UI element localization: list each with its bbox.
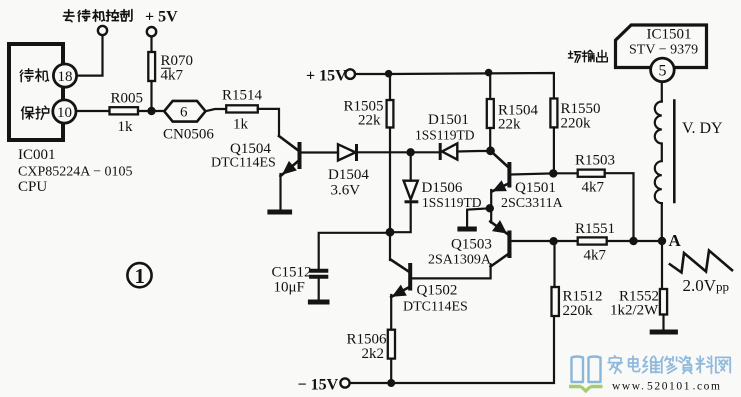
transistor Q1503 — [412, 222, 512, 279]
pin 18 of IC001 — [53, 64, 76, 87]
wire: R1550 to base node — [553, 127, 555, 173]
svg-text:520101: 520101 — [647, 381, 691, 393]
node: junction D1506 top — [406, 148, 414, 156]
wire: R1503 right down to R1551 line — [605, 173, 634, 241]
svg-text:4k7: 4k7 — [161, 68, 184, 84]
svg-text:Q1503: Q1503 — [451, 237, 492, 253]
wire: rail down to R1504 — [489, 73, 491, 99]
wire: node to R1503 — [553, 172, 577, 174]
svg-text:CXP85224A − 0105: CXP85224A − 0105 — [18, 165, 132, 180]
watermark url www.520101.com — [612, 381, 722, 393]
svg-text:D1506: D1506 — [422, 180, 463, 196]
node: junction R1504/D1501/Q1501 — [486, 146, 495, 155]
node: emitter junction Q1501/Q1503 — [486, 204, 494, 212]
wire: -15V rail — [350, 316, 554, 383]
wire: R1552 to ground — [662, 315, 664, 331]
svg-text:− 15V: − 15V — [298, 377, 339, 394]
wire: D1501 to Q1501 collector node — [457, 150, 490, 153]
wire: terminal to pin 18 — [77, 35, 103, 75]
pin 10 of IC001 — [53, 100, 76, 123]
svg-text:2.0Vpp: 2.0Vpp — [683, 276, 730, 295]
svg-text:+ 5V: + 5V — [145, 9, 178, 26]
svg-text:1SS119TD: 1SS119TD — [422, 195, 482, 210]
svg-text:1k2/2W: 1k2/2W — [610, 303, 659, 319]
IC1501 vertical output box — [616, 25, 707, 68]
svg-text:Q1502: Q1502 — [417, 283, 458, 299]
wire: emitter node to ground branch — [467, 208, 490, 227]
svg-text:6: 6 — [180, 105, 188, 121]
svg-text:CN0506: CN0506 — [163, 127, 214, 143]
wire: R070 to junction — [150, 81, 152, 111]
label 场输出 (field output) — [568, 50, 607, 62]
transistor Q1501 — [491, 151, 564, 223]
terminal: to-standby-control (去待机控制) open circle — [98, 26, 107, 35]
svg-text:A: A — [669, 231, 682, 250]
svg-text:DTC114ES: DTC114ES — [403, 300, 468, 315]
node: junction R070/R005/CN0506 — [147, 107, 155, 115]
svg-text:STV − 9379: STV − 9379 — [629, 43, 698, 58]
svg-text:4k7: 4k7 — [582, 180, 605, 196]
svg-text:DTC114ES: DTC114ES — [211, 156, 276, 171]
watermark char 维 with pink radical — [643, 356, 660, 372]
resistor R1505 — [344, 99, 394, 129]
svg-text:1SS119TD: 1SS119TD — [415, 128, 475, 143]
wire: pin 10 to R005 — [76, 110, 110, 112]
svg-text:R1503: R1503 — [575, 153, 615, 169]
resistor R1504 — [487, 99, 539, 133]
svg-text:Q1501: Q1501 — [515, 180, 556, 196]
svg-text:R1551: R1551 — [575, 221, 615, 237]
resistor R1552 — [610, 289, 667, 319]
node: junction R1512 on base line — [549, 237, 557, 245]
node: junction R1505/Q1502/C1512 — [386, 228, 395, 237]
node: junction rail/R1504 — [485, 69, 493, 77]
svg-text:D1501: D1501 — [428, 112, 469, 128]
wire: R1504 to collector node — [489, 128, 491, 151]
label 待机 (standby) — [20, 69, 48, 82]
svg-text:18: 18 — [58, 69, 73, 85]
waveform: sawtooth at node A — [669, 251, 733, 273]
resistor R1512 — [552, 287, 603, 319]
ground: C1512 — [308, 300, 330, 305]
watermark text 家电维修资料网 — [608, 356, 640, 374]
resistor R1551 — [575, 221, 615, 264]
node: junction R1503 branch — [629, 237, 637, 245]
wire: D1504 to D1501 — [358, 151, 439, 153]
wire: +15V supply rail — [355, 73, 554, 99]
label 保护 (protect) — [22, 106, 50, 119]
wire: pin 5 to coil — [661, 82, 663, 102]
wire: R1514 to Q1504 collector — [258, 109, 279, 136]
svg-text:www.: www. — [612, 381, 645, 393]
node: junction R1506/-15V rail — [387, 379, 395, 387]
connector CN0506 pin 6 hexagon — [163, 101, 214, 143]
svg-text:R1514: R1514 — [222, 88, 263, 104]
svg-text:22k: 22k — [358, 113, 381, 129]
svg-text:3.6V: 3.6V — [331, 183, 361, 199]
capacitor C1512 — [272, 265, 329, 301]
wire: +5V to R070 — [150, 37, 152, 52]
svg-text:1k: 1k — [233, 117, 249, 133]
node: junction rail/R1505 — [385, 70, 393, 78]
svg-text:R005: R005 — [111, 91, 144, 107]
wire: CN0506 to R1514 — [206, 109, 227, 111]
svg-text:2SC3311A: 2SC3311A — [501, 196, 564, 211]
resistor R1550 — [550, 99, 600, 132]
svg-text:CPU: CPU — [18, 179, 47, 195]
resistor R070 — [148, 52, 193, 84]
svg-text:IC1501: IC1501 — [647, 27, 692, 43]
svg-text:22k: 22k — [498, 117, 521, 133]
diode D1504 — [328, 144, 369, 199]
svg-text:2k2: 2k2 — [362, 346, 385, 362]
diode D1506 — [390, 152, 482, 232]
inductor V.DY deflection coil — [655, 99, 723, 203]
terminal: +15V open circle — [345, 69, 355, 79]
svg-text:220k: 220k — [561, 116, 592, 132]
transistor Q1504 base wire to D1504 — [302, 151, 339, 153]
ground: R1552 — [650, 330, 678, 335]
wire: R1512 up to R1551 line — [553, 241, 555, 287]
svg-text:220k: 220k — [563, 303, 594, 319]
svg-text:1k: 1k — [118, 119, 134, 135]
terminal: +5V open circle — [147, 27, 156, 36]
svg-text:5: 5 — [659, 63, 667, 80]
diode D1501 — [415, 112, 475, 160]
marker: circled 1 — [127, 263, 151, 288]
wire: Q1503 base to R1551 — [512, 240, 578, 242]
svg-text:V. DY: V. DY — [682, 120, 723, 137]
watermark: book icon — [569, 357, 603, 392]
svg-text:4k7: 4k7 — [584, 248, 607, 264]
wire: node to C1512 — [319, 233, 390, 269]
node A — [658, 237, 666, 245]
resistor R1506 — [347, 330, 396, 362]
resistor R1514 — [222, 88, 263, 133]
IC001 CPU box — [9, 44, 132, 195]
transistor Q1504 — [211, 136, 302, 210]
svg-text:10μF: 10μF — [274, 280, 305, 296]
ground: Q1503 emitter branch — [457, 227, 476, 232]
node: junction R1550/R1503/Q1501 base — [549, 169, 557, 177]
svg-text:2SA1309A: 2SA1309A — [428, 253, 492, 268]
svg-text:D1504: D1504 — [328, 167, 369, 183]
wire: R1505 down through D1504 line to lower node — [389, 74, 391, 233]
svg-text:IC001: IC001 — [18, 147, 56, 163]
wire: coil to node A — [661, 203, 663, 289]
svg-text:.com: .com — [693, 381, 722, 393]
resistor R1503 — [575, 153, 615, 196]
svg-text:10: 10 — [57, 105, 72, 121]
wire: R1551 to node A — [607, 240, 662, 242]
ground: Q1504 emitter — [267, 210, 292, 215]
wire: R005 to junction — [138, 110, 164, 112]
watermark text 修资料网 — [661, 356, 731, 373]
svg-text:C1512: C1512 — [272, 265, 312, 281]
resistor R005 — [110, 91, 144, 136]
wire: R1506 to -15V rail — [390, 359, 392, 383]
svg-text:1: 1 — [135, 264, 146, 288]
label 去待机控制 (to standby control) — [63, 10, 132, 22]
transistor Q1502 — [390, 232, 468, 330]
pin 5 of IC1501 — [651, 58, 675, 82]
terminal: -15V open circle — [340, 378, 349, 387]
svg-text:+ 15V: + 15V — [306, 68, 347, 85]
